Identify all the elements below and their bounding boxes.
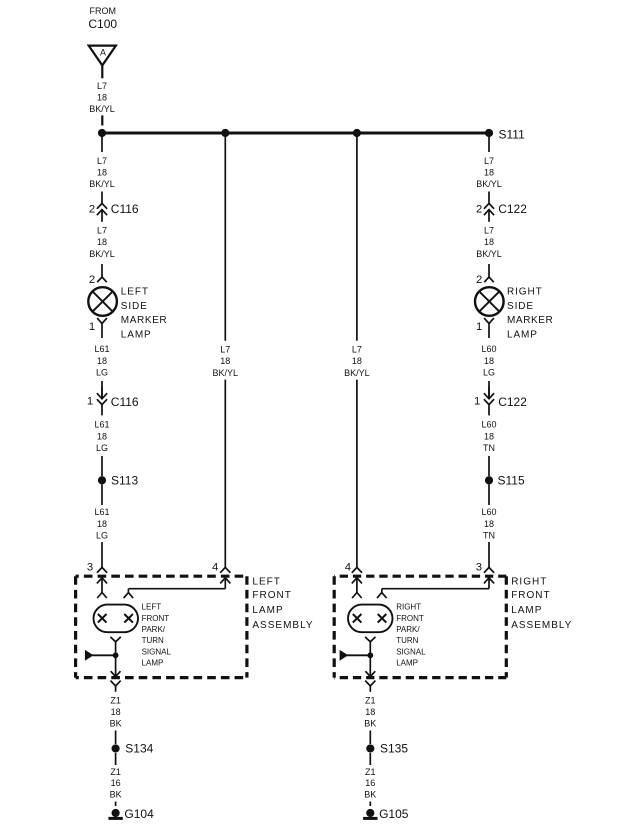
svg-text:FRONT: FRONT [142,614,170,623]
svg-text:G104: G104 [124,807,154,821]
svg-text:A: A [100,47,106,57]
svg-text:2: 2 [89,274,95,286]
svg-text:S135: S135 [380,741,408,755]
svg-text:2: 2 [89,203,95,215]
svg-text:TN: TN [483,443,495,453]
svg-text:4: 4 [345,562,351,574]
svg-text:BK: BK [364,789,376,799]
svg-text:3: 3 [87,562,93,574]
svg-text:BK/YL: BK/YL [476,179,502,189]
svg-text:LAMP: LAMP [142,659,164,668]
svg-text:BK/YL: BK/YL [344,368,370,378]
svg-text:LAMP: LAMP [396,659,418,668]
svg-text:18: 18 [365,707,375,717]
svg-text:LAMP: LAMP [121,330,152,341]
svg-text:18: 18 [97,237,107,247]
svg-text:MARKER: MARKER [507,315,553,326]
svg-text:LAMP: LAMP [511,605,542,616]
svg-text:LG: LG [96,367,108,377]
svg-text:LEFT: LEFT [121,287,149,298]
svg-text:BK/YL: BK/YL [476,249,502,259]
svg-text:G105: G105 [379,807,409,821]
svg-text:PARK/: PARK/ [142,625,166,634]
svg-text:18: 18 [97,92,107,102]
svg-text:C116: C116 [111,202,139,216]
svg-text:L60: L60 [481,507,496,517]
svg-text:BK: BK [110,719,122,729]
svg-text:S111: S111 [499,128,526,142]
svg-text:SIGNAL: SIGNAL [396,647,426,656]
svg-text:BK/YL: BK/YL [213,368,239,378]
svg-text:1: 1 [89,321,95,333]
svg-text:FRONT: FRONT [252,590,291,601]
svg-text:ASSEMBLY: ASSEMBLY [511,620,572,631]
svg-text:TN: TN [483,530,495,540]
svg-text:18: 18 [97,431,107,441]
svg-text:C122: C122 [498,395,527,409]
svg-text:2: 2 [476,274,482,286]
svg-text:L60: L60 [481,419,496,429]
svg-text:S113: S113 [111,474,138,488]
svg-text:Z1: Z1 [110,696,121,706]
svg-text:RIGHT: RIGHT [511,576,547,587]
svg-text:18: 18 [97,168,107,178]
svg-text:LEFT: LEFT [142,603,162,612]
svg-text:FROM: FROM [90,6,117,16]
svg-text:BK/YL: BK/YL [89,104,115,114]
svg-text:16: 16 [365,778,375,788]
svg-text:C100: C100 [88,17,117,31]
svg-text:ASSEMBLY: ASSEMBLY [252,620,313,631]
svg-text:Z1: Z1 [365,767,376,777]
svg-text:LG: LG [483,367,495,377]
svg-text:L7: L7 [97,226,107,236]
svg-text:L7: L7 [97,156,107,166]
svg-text:1: 1 [87,395,93,407]
svg-text:RIGHT: RIGHT [507,287,543,298]
svg-text:Z1: Z1 [110,767,121,777]
svg-text:4: 4 [212,562,218,574]
svg-text:FRONT: FRONT [396,614,424,623]
svg-text:18: 18 [111,707,121,717]
svg-text:18: 18 [97,356,107,366]
svg-text:TURN: TURN [142,636,164,645]
svg-text:18: 18 [484,237,494,247]
svg-text:L7: L7 [220,344,230,354]
svg-text:18: 18 [484,431,494,441]
svg-text:L7: L7 [484,226,494,236]
svg-text:PARK/: PARK/ [396,625,420,634]
svg-text:L61: L61 [94,344,109,354]
svg-text:SIDE: SIDE [507,301,534,312]
svg-text:SIDE: SIDE [121,301,148,312]
svg-text:LG: LG [96,530,108,540]
svg-text:TURN: TURN [396,636,418,645]
svg-text:1: 1 [476,321,482,333]
svg-text:BK/YL: BK/YL [89,249,115,259]
svg-text:BK/YL: BK/YL [89,179,115,189]
svg-text:BK: BK [364,719,376,729]
svg-text:FRONT: FRONT [511,590,550,601]
svg-text:18: 18 [97,519,107,529]
svg-text:L7: L7 [97,81,107,91]
svg-text:S115: S115 [498,474,525,488]
svg-text:16: 16 [111,778,121,788]
svg-text:18: 18 [484,519,494,529]
svg-text:MARKER: MARKER [121,315,167,326]
svg-text:LG: LG [96,443,108,453]
svg-text:LAMP: LAMP [507,330,538,341]
svg-text:3: 3 [476,562,482,574]
svg-text:18: 18 [484,168,494,178]
svg-text:L7: L7 [352,344,362,354]
svg-text:1: 1 [474,395,480,407]
svg-text:LAMP: LAMP [252,605,283,616]
svg-text:L60: L60 [481,344,496,354]
svg-text:RIGHT: RIGHT [396,603,421,612]
svg-text:2: 2 [476,203,482,215]
svg-text:L61: L61 [94,419,109,429]
svg-text:C122: C122 [498,202,527,216]
svg-text:18: 18 [220,356,230,366]
svg-text:18: 18 [484,356,494,366]
svg-text:Z1: Z1 [365,696,376,706]
svg-text:L61: L61 [94,507,109,517]
svg-text:C116: C116 [111,395,139,409]
svg-text:SIGNAL: SIGNAL [142,647,172,656]
svg-text:LEFT: LEFT [252,576,280,587]
svg-text:BK: BK [110,789,122,799]
svg-text:L7: L7 [484,156,494,166]
svg-text:18: 18 [352,356,362,366]
svg-text:S134: S134 [125,741,153,755]
